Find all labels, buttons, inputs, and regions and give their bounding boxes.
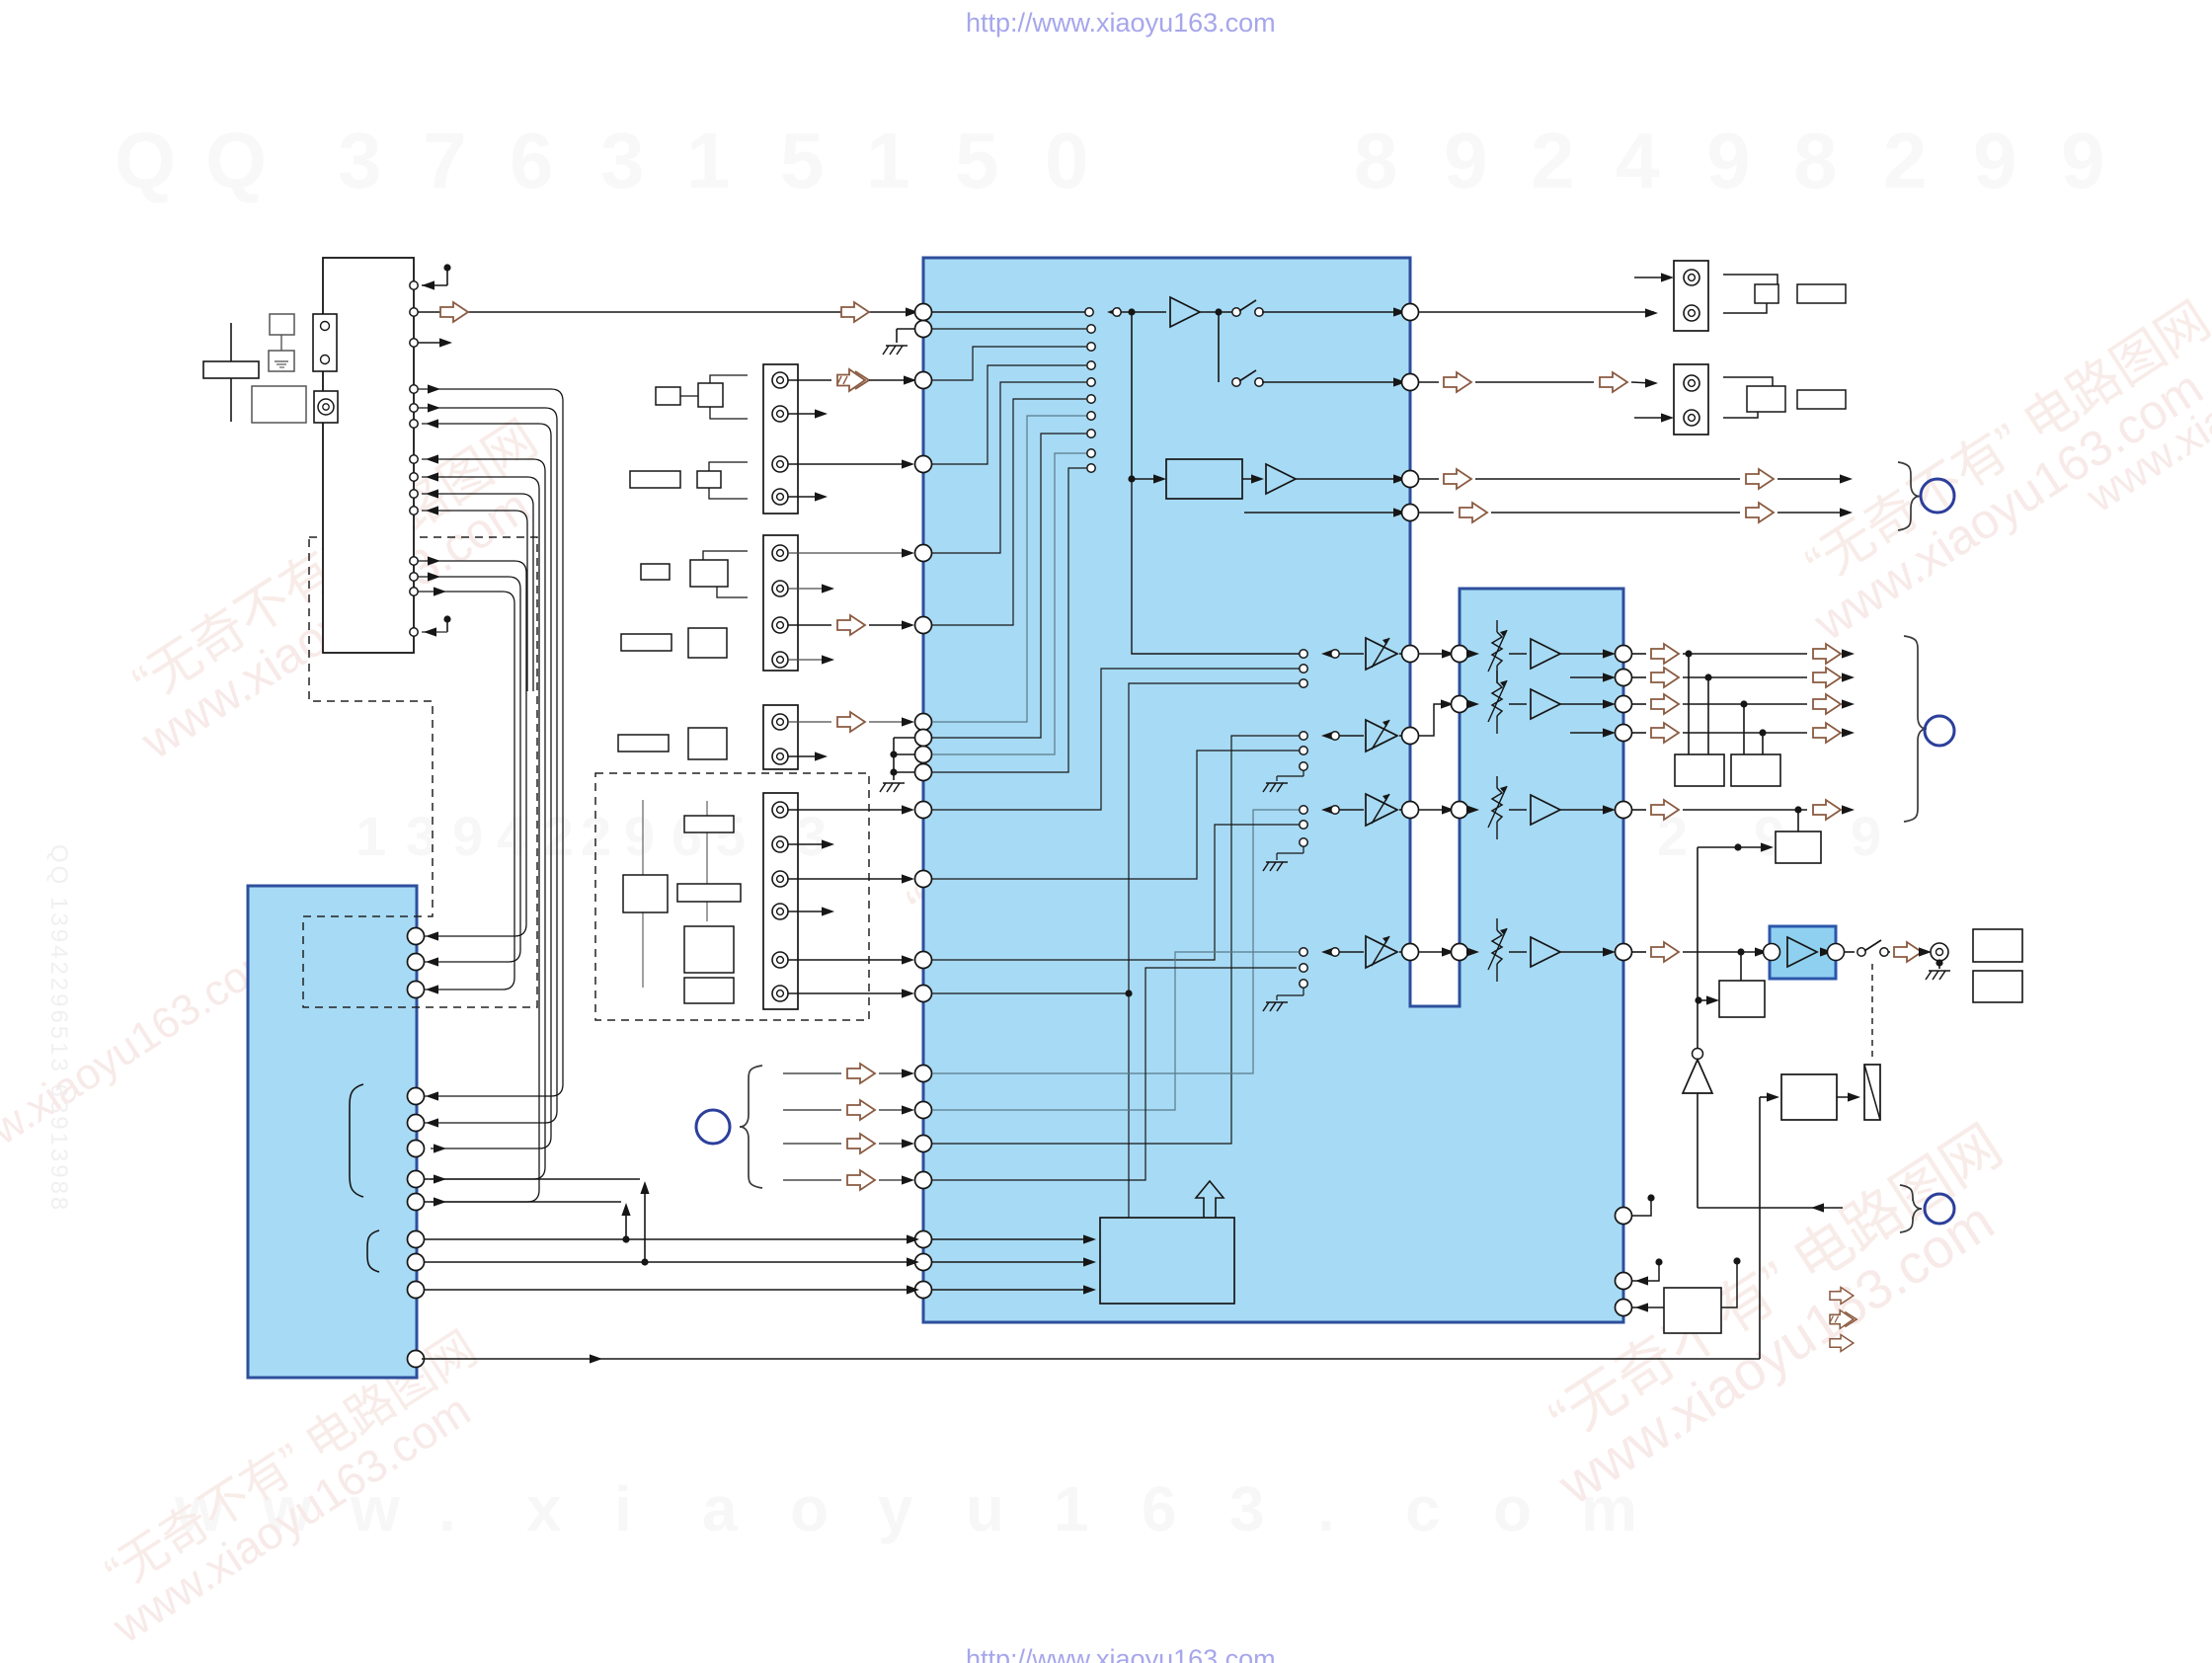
component pair (aux input) [618, 728, 727, 759]
volume attenuator SW channel [1263, 918, 1632, 1011]
svg-text:x: x [526, 1473, 562, 1544]
wire bus tuner to control IC [418, 384, 563, 1206]
tape out connector CN302 [1419, 364, 1846, 435]
sheet reference A (4 signal rows) [696, 1064, 914, 1190]
wire tuner VCC [422, 264, 451, 289]
svg-text:u: u [966, 1473, 1004, 1544]
svg-text:http://www.xiaoyu163.com: http://www.xiaoyu163.com [966, 8, 1276, 38]
wire tuner audio to IC pin [418, 302, 918, 322]
control IC pins [408, 928, 425, 1368]
connector CN201 [763, 364, 798, 514]
svg-text:3: 3 [1229, 1473, 1265, 1544]
svg-text:2: 2 [543, 805, 574, 867]
inverter Q301 [1683, 1049, 1712, 1209]
component group (recording selector) [623, 800, 741, 1003]
svg-text:9: 9 [1973, 117, 2017, 204]
svg-text:1: 1 [1054, 1473, 1089, 1544]
svg-text:9: 9 [2061, 117, 2105, 204]
svg-text:9: 9 [624, 805, 655, 867]
mute drive block [1698, 831, 1821, 1048]
IC power pins and decoupling [1616, 1194, 1741, 1333]
sheet reference B rows [1419, 462, 1954, 530]
svg-text:5: 5 [715, 805, 746, 867]
AM antenna box [252, 386, 306, 423]
IC input buffer and rec switches [932, 297, 1406, 479]
output mute blocks [1675, 654, 1780, 786]
wire CN201 to IC [788, 369, 916, 502]
headphone detect block [1695, 952, 1765, 1017]
svg-text:3: 3 [338, 117, 382, 204]
svg-text:2: 2 [1531, 117, 1575, 204]
svg-text:o: o [790, 1473, 829, 1544]
wire subwoofer out row [1632, 636, 1954, 831]
wire CN202 to IC [788, 548, 914, 664]
connector CN204 [763, 793, 798, 1009]
rec out connector CN301 [1419, 261, 1846, 331]
svg-text:4: 4 [497, 805, 527, 867]
dashed outline (input select section) [595, 773, 869, 1020]
resistor/cap pair R201 C201 [656, 375, 748, 419]
AM loop antenna [203, 323, 259, 422]
svg-text:1: 1 [866, 117, 910, 204]
svg-text:8: 8 [1793, 117, 1838, 204]
svg-text:3: 3 [796, 805, 827, 867]
svg-text:.: . [438, 1473, 456, 1544]
volume attenuator FL channel [1300, 620, 1632, 687]
svg-text:1: 1 [355, 805, 386, 867]
control IC port brackets [350, 1084, 379, 1272]
wire CN203 to IC [788, 712, 914, 761]
headphone jack J301 [1845, 940, 1950, 980]
IC power supply block [932, 1181, 1234, 1304]
svg-text:6: 6 [671, 805, 702, 867]
ground GND2 [880, 738, 915, 792]
svg-text:a: a [702, 1473, 738, 1544]
wire bus tuner control lines [418, 556, 526, 993]
svg-text:9: 9 [1706, 117, 1751, 204]
AM jack CN102 [314, 391, 338, 423]
svg-text:i: i [614, 1473, 632, 1544]
svg-text:http://www.xiaoyu163.com: http://www.xiaoyu163.com [966, 1644, 1276, 1663]
wire tuner AGC stub [422, 615, 451, 636]
wire muting control [1698, 1185, 1954, 1232]
svg-text:7: 7 [423, 117, 467, 204]
svg-text:Q: Q [115, 117, 176, 204]
component group (input filters) [621, 462, 748, 658]
wire tuner stub [418, 338, 452, 347]
volume attenuator FR channel [1263, 671, 1632, 792]
svg-text:4: 4 [1616, 117, 1660, 204]
volume attenuator center channel [1263, 776, 1632, 871]
system control IC IC901 body [248, 886, 417, 1378]
tuner pins [410, 281, 418, 636]
main IC right pins top [1402, 304, 1419, 521]
ghost watermark digits [45, 117, 2105, 1544]
ground GND1 [883, 329, 915, 355]
wire CN204 to IC [788, 805, 914, 997]
IC internal selector ladder [932, 325, 1095, 772]
headphone amp IC301 [1764, 926, 1845, 979]
svg-text:9: 9 [1444, 117, 1488, 204]
wire pre-out rows [1632, 644, 1855, 743]
wire power control rows [422, 1179, 919, 1295]
tuner block TU101 [323, 258, 414, 653]
svg-text:c: c [1405, 1473, 1441, 1544]
watermark url top [966, 8, 1276, 38]
svg-text:y: y [878, 1473, 913, 1544]
relay RY301 [1760, 1065, 1880, 1120]
svg-text:8: 8 [1354, 117, 1398, 204]
main IC U101 body [923, 258, 1623, 1322]
svg-text:9: 9 [452, 805, 483, 867]
headphone resistor boxes [1973, 929, 2022, 1002]
wire standby line [422, 1097, 1760, 1364]
svg-text:o: o [1493, 1473, 1532, 1544]
wire surround out rows [1570, 670, 1632, 742]
svg-text:9: 9 [1851, 805, 1881, 867]
svg-text:6: 6 [510, 117, 554, 204]
IC detector block [1128, 459, 1406, 517]
svg-text:QQ 13942296513 63913988: QQ 13942296513 63913988 [45, 844, 72, 1213]
svg-text:1: 1 [686, 117, 731, 204]
watermark url bottom [966, 1644, 1276, 1663]
antenna connector CN101 [313, 314, 337, 371]
connector CN203 [763, 705, 798, 769]
IC internal signal routing [932, 479, 1300, 1218]
svg-text:0: 0 [1045, 117, 1089, 204]
FM antenna terminal [269, 314, 294, 371]
detection switch dashed link [1871, 964, 1873, 1061]
svg-text:Q: Q [205, 117, 267, 204]
svg-text:6: 6 [1142, 1473, 1177, 1544]
connector CN202 [763, 535, 798, 671]
svg-text:.: . [1317, 1473, 1335, 1544]
signal flow legend [1830, 1288, 1856, 1352]
dashed outline (tuner section) [303, 537, 537, 1007]
wire headphone feed [1632, 942, 1768, 962]
svg-text:2: 2 [1883, 117, 1928, 204]
svg-text:5: 5 [955, 117, 999, 204]
svg-text:5: 5 [780, 117, 825, 204]
main IC left pins [915, 304, 932, 1299]
svg-text:3: 3 [600, 117, 645, 204]
